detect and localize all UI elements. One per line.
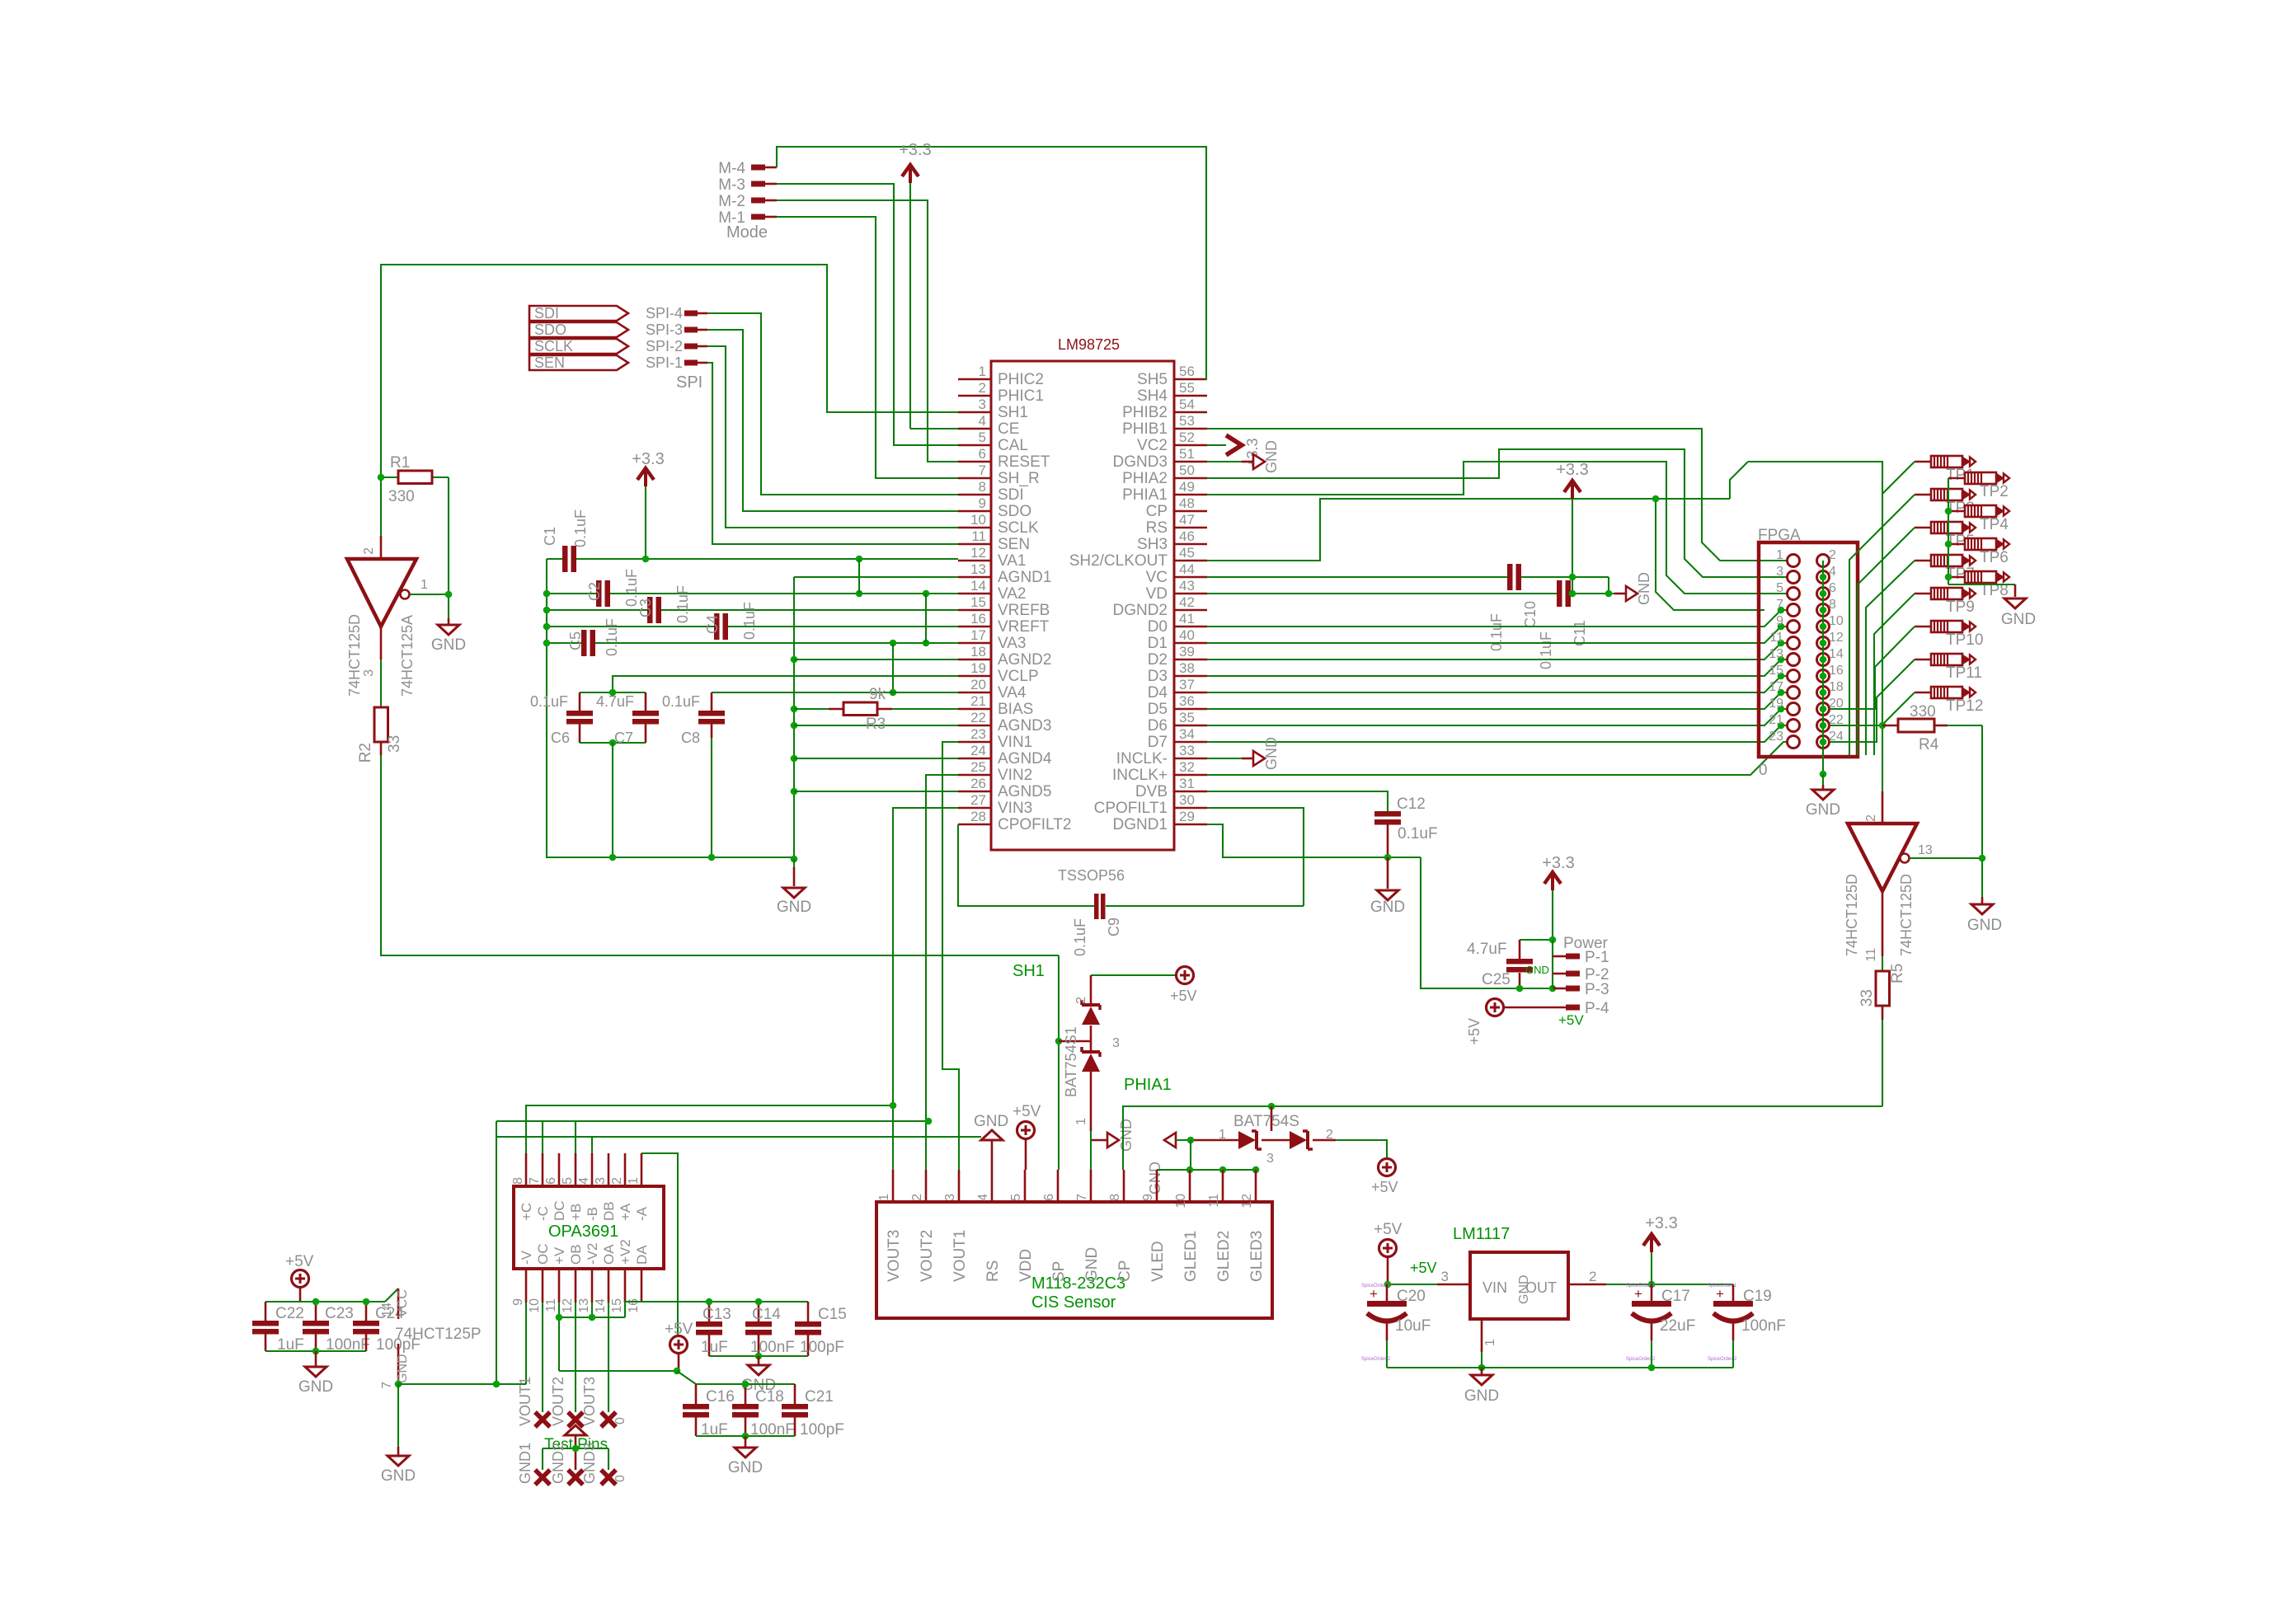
pin 5 CAL <box>958 429 1028 454</box>
FPGA pin 22 socket <box>1817 720 1830 732</box>
wire pin24 AGND4 <box>794 758 958 759</box>
svg-text:SPI-2: SPI-2 <box>646 338 683 354</box>
CIS pin 10 GLED1 <box>1174 1170 1200 1282</box>
pin 55 SH4 <box>1137 380 1207 405</box>
svg-text:SpiceOrder 1: SpiceOrder 1 <box>1708 1284 1737 1288</box>
testpin X GND3 <box>601 1470 616 1485</box>
svg-text:6: 6 <box>1829 581 1836 595</box>
svg-text:CPOFILT1: CPOFILT1 <box>1094 800 1168 817</box>
pin 1 PHIC2 <box>958 364 1044 388</box>
ground GND below C23 <box>298 1351 333 1396</box>
wire test pin GND tie <box>543 1436 608 1470</box>
svg-text:AGND5: AGND5 <box>998 783 1051 800</box>
pin 30 CPOFILT1 <box>1094 792 1207 817</box>
svg-text:9: 9 <box>1776 614 1783 628</box>
OPA pin 15 +V2 <box>610 1239 633 1313</box>
svg-text:25: 25 <box>970 759 986 775</box>
wire FPGA even pins GND chain <box>1822 561 1824 774</box>
svg-text:PHIB1: PHIB1 <box>1122 420 1168 438</box>
testpoint TP12 <box>1915 687 1983 715</box>
svg-text:10: 10 <box>970 512 986 528</box>
svg-text:SDO: SDO <box>534 322 566 338</box>
svg-text:+5V: +5V <box>1371 1179 1398 1195</box>
power pins 74HCT125P VCC/GND <box>380 1288 482 1389</box>
pin 7 SH_R <box>958 462 1040 487</box>
svg-text:32: 32 <box>1179 759 1195 775</box>
svg-text:VCC: VCC <box>396 1289 410 1317</box>
svg-text:GND: GND <box>1118 1119 1135 1152</box>
svg-text:1uF: 1uF <box>701 1339 728 1356</box>
supply +3.3 at LM1117 out <box>1643 1214 1678 1284</box>
pin 41 D0 <box>1148 611 1207 636</box>
supply +3.3 at Power <box>1542 854 1574 940</box>
svg-text:VA2: VA2 <box>998 585 1027 603</box>
wire D4 to FPGA pin15 <box>1207 676 1787 692</box>
svg-text:C9: C9 <box>1106 918 1122 936</box>
pin 14 VA2 <box>958 578 1027 603</box>
CIS pin 8 CP <box>1108 1170 1134 1282</box>
FPGA pin 14 socket <box>1817 654 1830 666</box>
node R1 junction <box>378 474 385 481</box>
pin 35 D6 <box>1148 710 1207 735</box>
svg-text:DC: DC <box>552 1200 567 1221</box>
wire TP12 tap to R4 node <box>1883 692 1915 724</box>
svg-text:C17: C17 <box>1661 1288 1690 1305</box>
ground GND rail bottom <box>777 856 811 916</box>
svg-text:TP6: TP6 <box>1980 549 2009 566</box>
svg-text:VIN1: VIN1 <box>998 734 1032 751</box>
svg-text:D4: D4 <box>1148 684 1168 702</box>
svg-text:C19: C19 <box>1743 1288 1772 1305</box>
capacitor C2 0.1uF <box>547 569 958 607</box>
pin 42 DGND2 <box>1112 594 1207 619</box>
svg-text:BAT754S: BAT754S <box>1233 1113 1299 1130</box>
capacitor C6 0.1uF <box>530 692 646 746</box>
FPGA pin 9 socket <box>1788 621 1800 633</box>
wire D5 to FPGA pin17 <box>1207 692 1787 709</box>
diode pair BAT754S (second) <box>1147 1106 1336 1195</box>
svg-text:VOUT2: VOUT2 <box>550 1377 566 1426</box>
svg-text:26: 26 <box>970 776 986 791</box>
pin 16 VREFT <box>958 611 1050 636</box>
svg-text:0.1uF: 0.1uF <box>741 602 758 640</box>
svg-text:0.1uF: 0.1uF <box>604 618 620 656</box>
flag SDI <box>529 305 628 322</box>
svg-text:7: 7 <box>528 1177 542 1185</box>
svg-text:CP: CP <box>1146 503 1168 520</box>
ground arrow at CIS pin7 <box>1091 1119 1135 1170</box>
svg-text:28: 28 <box>970 809 986 824</box>
testpoint TP6 <box>1948 538 2009 566</box>
pin 36 D5 <box>1148 693 1207 718</box>
svg-text:4: 4 <box>976 1194 990 1201</box>
capacitor C7 4.7uF <box>580 692 659 746</box>
svg-text:VREFT: VREFT <box>998 618 1050 636</box>
svg-text:GND: GND <box>974 1113 1008 1130</box>
svg-text:10: 10 <box>528 1298 542 1313</box>
svg-text:4.7uF: 4.7uF <box>596 693 634 710</box>
svg-text:D1: D1 <box>1148 635 1168 652</box>
svg-text:17: 17 <box>970 627 986 643</box>
pin 52 VC2 <box>1137 429 1207 454</box>
svg-text:15: 15 <box>610 1298 624 1313</box>
CIS pin 12 GLED3 <box>1240 1170 1266 1282</box>
svg-text:3: 3 <box>943 1194 957 1201</box>
IC U4 LM1117 body <box>1453 1225 1568 1319</box>
svg-text:R4: R4 <box>1919 736 1939 753</box>
svg-text:52: 52 <box>1179 429 1195 445</box>
svg-text:18: 18 <box>970 644 986 659</box>
pin 48 CP <box>1146 495 1207 520</box>
OPA pin 12 OB <box>561 1244 584 1312</box>
testpin X GND2 <box>568 1470 583 1485</box>
wire OPA +V2 to C13 rail <box>625 1302 808 1317</box>
pin 39 D2 <box>1148 644 1207 669</box>
capacitor C22 1uF <box>252 1302 385 1354</box>
pin 27 VIN3 <box>958 792 1032 817</box>
svg-text:48: 48 <box>1179 495 1195 511</box>
wire OUT rail <box>1568 1269 1733 1284</box>
flag SEN <box>529 354 628 371</box>
svg-text:SpiceOrder 2: SpiceOrder 2 <box>1626 1357 1656 1362</box>
wire C13-C15 bottom rail <box>709 1355 808 1357</box>
svg-text:GND: GND <box>298 1378 333 1396</box>
svg-text:+3.3: +3.3 <box>632 450 664 468</box>
svg-text:18: 18 <box>1829 680 1844 694</box>
pin 50 PHIA2 <box>1122 462 1207 487</box>
svg-text:LM1117: LM1117 <box>1453 1225 1510 1243</box>
supply +3.3 at VA1 <box>632 450 664 559</box>
svg-text:0.1uF: 0.1uF <box>1488 613 1505 651</box>
capacitor C13 1uF <box>696 1302 731 1356</box>
svg-text:49: 49 <box>1179 479 1195 495</box>
wire pin31 DVB to C12 <box>1207 791 1388 811</box>
wire C22-C24 bottom rail <box>265 1350 366 1352</box>
wire TP9 diagonal <box>1874 594 1915 755</box>
FPGA pin 4 socket <box>1817 571 1830 584</box>
wire pin30 CPOFILT1 <box>1207 808 1304 906</box>
FPGA pin 21 socket <box>1788 720 1800 732</box>
pin 18 AGND2 <box>958 644 1051 669</box>
svg-text:7: 7 <box>380 1382 394 1389</box>
capacitor C3 0.1uF <box>547 585 958 623</box>
node buffer enable junction <box>445 591 453 598</box>
svg-text:VLED: VLED <box>1149 1241 1167 1282</box>
testpoint TP8 <box>1948 571 2009 599</box>
svg-text:1: 1 <box>627 1177 641 1185</box>
capacitor C25 4.7uF <box>1467 940 1553 988</box>
svg-text:D6: D6 <box>1148 717 1168 735</box>
wire SPI-1 to pin11 SEN <box>698 363 958 544</box>
svg-text:0: 0 <box>613 1417 627 1425</box>
svg-text:CP: CP <box>1116 1260 1134 1282</box>
supply +5V at LM1117 <box>1374 1221 1403 1284</box>
svg-text:2: 2 <box>1589 1269 1596 1284</box>
FPGA pin 8 socket <box>1817 604 1830 617</box>
OPA pin 13 -V2 <box>577 1243 600 1313</box>
svg-text:+B: +B <box>568 1204 584 1221</box>
svg-text:PHIC2: PHIC2 <box>998 371 1044 388</box>
labels VOUT1-3 <box>517 1377 627 1426</box>
svg-text:40: 40 <box>1179 627 1195 643</box>
svg-text:GND: GND <box>1967 917 2002 934</box>
wire pin19 VCLP to C6/C7 <box>613 676 958 692</box>
svg-text:3: 3 <box>979 397 986 412</box>
svg-text:41: 41 <box>1179 611 1195 627</box>
wire C10 to C11 stub <box>1608 577 1609 594</box>
pin 32 INCLK+ <box>1112 759 1207 784</box>
buffer U2A 74HCT125 (left) <box>346 536 449 697</box>
pin 21 BIAS <box>958 693 1033 718</box>
connector Mode pads M-1..M-4 <box>718 160 768 242</box>
svg-text:330: 330 <box>388 488 415 505</box>
svg-text:11: 11 <box>544 1298 558 1312</box>
pin 49 PHIA1 <box>1122 479 1207 504</box>
CIS pin 11 GLED2 <box>1207 1170 1233 1282</box>
svg-text:2: 2 <box>362 547 376 555</box>
svg-text:3: 3 <box>1441 1269 1449 1284</box>
wire pin12 VA1 <box>576 558 958 560</box>
svg-text:51: 51 <box>1179 446 1195 462</box>
svg-text:D2: D2 <box>1148 651 1168 669</box>
svg-text:SDO: SDO <box>998 503 1031 520</box>
wire FPGA pin22 to R4 node <box>1830 725 1882 726</box>
svg-text:56: 56 <box>1179 364 1195 379</box>
svg-text:100pF: 100pF <box>800 1339 844 1356</box>
wire R1 to GND <box>448 477 449 625</box>
wire pin50 PHIA2 to FPGA pin3 <box>1207 449 1787 577</box>
testpoint TP10 <box>1915 621 1983 649</box>
wire pin28 CPOFILT2 to C9 <box>958 824 1094 906</box>
wire pin29 DGND1 <box>1207 824 1421 857</box>
pin 4 CE <box>958 413 1019 438</box>
wire TP3 diagonal <box>1849 495 1915 755</box>
pin 56 SH5 <box>1137 364 1207 388</box>
svg-text:11: 11 <box>1769 631 1783 645</box>
svg-text:1: 1 <box>1074 1118 1088 1125</box>
svg-text:2: 2 <box>1326 1128 1333 1142</box>
pin 22 AGND3 <box>958 710 1051 735</box>
svg-text:2: 2 <box>979 380 986 396</box>
svg-text:R2: R2 <box>357 743 374 763</box>
svg-text:M118-232C3: M118-232C3 <box>1031 1274 1125 1293</box>
CIS pin 7 GND <box>1075 1170 1101 1282</box>
svg-text:17: 17 <box>1769 680 1783 694</box>
pin 29 DGND1 <box>1112 809 1207 833</box>
svg-text:SH4: SH4 <box>1137 387 1168 405</box>
FPGA pin 15 socket <box>1788 670 1800 683</box>
wire P-2 lead <box>1553 973 1566 975</box>
svg-text:P-4: P-4 <box>1585 1000 1609 1017</box>
wire D7 to FPGA pin21 <box>1207 725 1787 742</box>
ground GND below R1 <box>431 625 466 654</box>
svg-text:VIN3: VIN3 <box>998 800 1032 817</box>
OPA pin 6 DC <box>544 1153 567 1221</box>
svg-text:TSSOP56: TSSOP56 <box>1058 867 1125 884</box>
svg-text:D0: D0 <box>1148 618 1168 636</box>
capacitor C11 0.1uF <box>1207 580 1614 669</box>
svg-text:SPI-3: SPI-3 <box>646 322 683 338</box>
pin 13 AGND1 <box>958 561 1051 586</box>
svg-text:50: 50 <box>1179 462 1195 478</box>
testpoint TP11 <box>1915 654 1982 682</box>
svg-text:9: 9 <box>511 1298 525 1306</box>
capacitor C5 0.1uF <box>547 618 958 656</box>
svg-text:SDI: SDI <box>534 305 559 322</box>
wire pin45 SH2/CLKOUT route <box>1207 499 1764 610</box>
svg-text:SpiceOrder 1: SpiceOrder 1 <box>1626 1284 1656 1288</box>
svg-text:M-2: M-2 <box>718 193 745 210</box>
svg-text:39: 39 <box>1179 644 1195 659</box>
OPA pin 9 -V <box>511 1250 534 1306</box>
svg-text:21: 21 <box>1769 713 1783 727</box>
svg-text:4: 4 <box>577 1177 591 1185</box>
ground GND below C14 <box>741 1356 776 1394</box>
svg-text:GND3: GND3 <box>581 1443 598 1484</box>
pin 25 VIN2 <box>958 759 1032 784</box>
svg-text:23: 23 <box>1769 730 1783 744</box>
wire TP5 diagonal <box>1858 528 1915 755</box>
FPGA pin 18 socket <box>1817 687 1830 699</box>
svg-text:INCLK-: INCLK- <box>1116 750 1168 767</box>
diode pair BAT754S1 <box>1059 975 1120 1131</box>
svg-text:CE: CE <box>998 420 1019 438</box>
FPGA pin 6 socket <box>1817 588 1830 600</box>
pin 6 RESET <box>958 446 1050 471</box>
svg-text:Mode: Mode <box>726 223 768 242</box>
wire 74HCT125P GND to OPA -V <box>398 1302 526 1384</box>
wire D0 to FPGA pin7 <box>1207 610 1787 627</box>
svg-text:+A: +A <box>618 1203 633 1221</box>
ground GND right buffer <box>1967 904 2002 934</box>
wire BAT754S to +5V <box>1336 1140 1387 1158</box>
ground GND at TP chain <box>2001 598 2036 628</box>
svg-text:DGND1: DGND1 <box>1112 816 1168 833</box>
svg-text:CAL: CAL <box>998 437 1028 454</box>
svg-text:31: 31 <box>1179 776 1195 791</box>
svg-text:10: 10 <box>1174 1194 1188 1209</box>
capacitor C12 0.1uF <box>1374 796 1438 857</box>
svg-text:10uF: 10uF <box>1395 1317 1431 1335</box>
svg-text:C14: C14 <box>752 1306 781 1323</box>
OPA pin 5 +B <box>561 1153 584 1221</box>
svg-text:33: 33 <box>1858 989 1876 1007</box>
svg-text:GND1: GND1 <box>517 1443 533 1484</box>
svg-text:74HCT125A: 74HCT125A <box>399 615 416 697</box>
supply +5V at C22 <box>285 1253 314 1302</box>
pin 24 AGND4 <box>958 743 1052 767</box>
wire R4 to GND with pin13 junction <box>1981 725 1983 904</box>
FPGA pin 11 socket <box>1788 637 1800 650</box>
pin 40 D1 <box>1148 627 1207 652</box>
capacitor C20 10uF <box>1367 1284 1431 1368</box>
pin 53 PHIB1 <box>1122 413 1207 438</box>
wire SPI-2 to pin10 SCLK <box>698 346 958 528</box>
ground arrow at C11 <box>1614 572 1652 605</box>
testpin X VOUT3 <box>601 1412 616 1427</box>
svg-text:C1: C1 <box>542 527 558 546</box>
svg-text:11: 11 <box>1864 948 1878 962</box>
svg-text:1: 1 <box>421 578 428 592</box>
testpin X VOUT1 <box>535 1412 550 1427</box>
svg-text:6: 6 <box>979 446 986 462</box>
supply +5V at BAT754S1 <box>1091 967 1197 1005</box>
svg-text:GND2: GND2 <box>550 1443 566 1484</box>
flag SCLK <box>529 338 628 354</box>
CIS pin 2 VOUT2 <box>910 1170 936 1282</box>
svg-text:RS: RS <box>984 1260 1002 1282</box>
OPA pin 3 DB <box>594 1153 617 1221</box>
svg-text:0.1uF: 0.1uF <box>662 693 700 710</box>
svg-text:GND: GND <box>2001 611 2036 628</box>
svg-text:+3.3: +3.3 <box>899 141 931 159</box>
svg-text:C15: C15 <box>818 1306 847 1323</box>
capacitor C16 1uF <box>683 1384 795 1439</box>
svg-text:SCLK: SCLK <box>534 338 573 354</box>
svg-text:46: 46 <box>1179 528 1195 544</box>
OPA pin 10 OC <box>528 1244 551 1313</box>
FPGA pin 10 socket <box>1817 621 1830 633</box>
wire TP7 diagonal <box>1866 561 1915 755</box>
svg-text:SH3: SH3 <box>1137 536 1168 553</box>
FPGA pin 1 socket <box>1788 555 1800 567</box>
capacitor C19 100nF <box>1713 1284 1786 1368</box>
svg-text:2: 2 <box>1074 997 1088 1004</box>
svg-text:TP12: TP12 <box>1946 697 1983 715</box>
svg-text:8: 8 <box>1829 598 1836 612</box>
ground GND below C18 <box>728 1436 763 1476</box>
wire D1 to FPGA pin9 <box>1207 627 1787 643</box>
OPA pin 11 +V <box>544 1246 567 1312</box>
svg-text:36: 36 <box>1179 693 1195 709</box>
OPA pin 16 DA <box>627 1245 650 1313</box>
svg-text:20: 20 <box>970 677 986 692</box>
svg-text:SDI: SDI <box>998 486 1024 504</box>
svg-text:100pF: 100pF <box>800 1421 844 1439</box>
wire +5V diagonal to C16 rail <box>677 1371 696 1384</box>
svg-text:35: 35 <box>1179 710 1195 725</box>
svg-text:19: 19 <box>1769 697 1783 711</box>
wire TP1 tap diagonal <box>1882 462 1915 494</box>
svg-text:M-3: M-3 <box>718 176 745 194</box>
pin 45 SH2/CLKOUT <box>1069 545 1207 570</box>
svg-text:C4: C4 <box>704 615 721 634</box>
svg-text:C2: C2 <box>586 582 603 601</box>
svg-text:BAT754S1: BAT754S1 <box>1063 1026 1079 1097</box>
svg-text:SpiceOrder 2: SpiceOrder 2 <box>1708 1357 1737 1362</box>
svg-text:OPA3691: OPA3691 <box>548 1223 618 1241</box>
svg-text:TP11: TP11 <box>1946 664 1982 682</box>
svg-text:100nF: 100nF <box>1741 1317 1786 1335</box>
svg-text:47: 47 <box>1179 512 1195 528</box>
svg-text:30: 30 <box>1179 792 1195 808</box>
svg-text:GND: GND <box>1083 1247 1101 1282</box>
supply +3.3 at VC/VD <box>1556 461 1588 594</box>
svg-text:GLED3: GLED3 <box>1248 1231 1266 1282</box>
ground GND below C12 <box>1370 857 1405 916</box>
svg-text:GND: GND <box>1263 737 1280 770</box>
CIS pin 1 VOUT3 <box>877 1170 903 1282</box>
wire TP11 to FPGA pin24 <box>1830 659 1915 742</box>
svg-text:GND: GND <box>728 1459 763 1476</box>
pin 17 VA3 <box>958 627 1027 652</box>
svg-text:SH1: SH1 <box>1013 962 1045 980</box>
svg-text:VDD: VDD <box>1017 1249 1035 1282</box>
pin 51 DGND3 <box>1112 446 1207 471</box>
svg-text:VOUT3: VOUT3 <box>886 1230 903 1282</box>
svg-text:C12: C12 <box>1397 796 1426 813</box>
svg-text:3: 3 <box>1112 1036 1120 1050</box>
